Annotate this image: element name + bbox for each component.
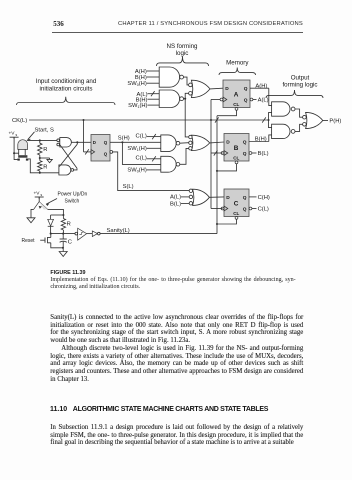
svg-text:R: R <box>43 165 47 171</box>
svg-text:B: B <box>234 145 239 152</box>
wire Qbar of A stub <box>253 99 257 101</box>
power +Vs sanity <box>34 191 43 198</box>
wire NS-C or output to D of flip-flop C <box>209 196 224 198</box>
label A(L) output <box>258 98 269 104</box>
svg-text:CL: CL <box>233 102 239 107</box>
junction lower rail to resistor <box>39 172 41 174</box>
wire B(H) stub <box>147 76 159 78</box>
running head <box>118 22 303 28</box>
wire B(H) stub 2 <box>148 98 160 100</box>
resistor R upper <box>38 143 42 155</box>
wire SW0(H) stub B2 <box>147 169 161 171</box>
label C(L) input B2 <box>136 156 147 162</box>
brace: Output forming logic <box>266 90 323 98</box>
power up/dn switch (SPDT) <box>34 202 48 210</box>
wire NS-B2 to or gate B <box>180 148 189 164</box>
junction reset bottom to capacitor ground stem <box>62 247 64 249</box>
svg-text:C: C <box>234 200 239 207</box>
svg-text:B(L): B(L) <box>258 151 269 157</box>
wire clock of B to bus <box>211 152 223 154</box>
label Reset <box>22 238 36 244</box>
label: Memory <box>226 60 249 67</box>
svg-text:logic: logic <box>176 50 189 57</box>
label Start S with arrow <box>28 128 54 142</box>
svg-text:+V: +V <box>9 131 16 137</box>
svg-text:Q: Q <box>244 86 248 92</box>
ground power switch <box>27 218 35 223</box>
gate debounce latch bottom NAND <box>59 165 74 175</box>
svg-text:C(L): C(L) <box>136 156 147 162</box>
wire S(H) branch to second NS gate <box>122 142 160 164</box>
wire NS-A2 branch down to or gate B <box>185 99 189 137</box>
header rule <box>52 31 303 34</box>
label CK(L) <box>12 118 27 124</box>
flip-flop C (memory) <box>221 189 252 219</box>
fan-in slash on C(L) B1 <box>152 134 156 139</box>
resistor R sanity <box>61 219 65 231</box>
nand gate output O2 <box>272 124 295 138</box>
wire right throw to RC node <box>48 209 64 215</box>
label: Input conditioning and initialization circuits <box>36 78 97 92</box>
brace: NS forming logic <box>157 57 209 67</box>
label A(L) input <box>137 92 148 98</box>
wire A(H) down to output nand 1 <box>269 88 272 105</box>
bubble synchronizer Q-bar <box>110 151 113 154</box>
wire CK to O2 input <box>269 120 272 128</box>
wire C(L) stub B2 <box>147 158 161 160</box>
svg-text:C(L): C(L) <box>258 207 269 213</box>
fan-in slash on CK wire at output logic <box>262 117 266 122</box>
wire NS-B or output to D of flip-flop B <box>210 141 224 144</box>
buffer driver <box>92 231 100 237</box>
svg-text:S(L): S(L) <box>123 184 134 190</box>
svg-text:Q: Q <box>243 195 247 201</box>
wire +Vs to power switch <box>38 197 40 202</box>
wire A(L) stub C <box>181 196 191 198</box>
body paragraph 2 <box>50 345 303 353</box>
wire sanity RC node rail <box>50 233 75 235</box>
svg-text:Q: Q <box>244 97 248 103</box>
wire NS-A2 to or gate <box>184 93 189 99</box>
svg-text:D: D <box>225 86 229 92</box>
label S(H) <box>118 135 130 141</box>
reset pushbutton <box>40 234 63 248</box>
wire resistor R upper leads <box>39 140 41 158</box>
nand gate NS-A2 <box>159 90 183 108</box>
svg-text:C(H): C(H) <box>258 195 270 201</box>
figure caption heading <box>50 271 85 276</box>
fan-in slash at clock of B <box>214 150 218 155</box>
label SW0(H) input B2 <box>127 168 146 174</box>
nand gate NS-B1 <box>161 135 180 152</box>
schmitt trigger inverter <box>75 228 87 240</box>
svg-text:initialization circuits: initialization circuits <box>40 85 93 92</box>
svg-text:Input conditioning and: Input conditioning and <box>36 78 97 85</box>
fan-in slash at synchronizer clock <box>85 149 89 154</box>
svg-text:C(L): C(L) <box>136 133 147 139</box>
svg-text:Memory: Memory <box>226 60 249 67</box>
svg-text:s: s <box>16 133 18 137</box>
wire CK(L) horizontal run <box>29 119 269 121</box>
figure caption text line 1 <box>50 277 295 284</box>
label R sanity <box>67 222 71 228</box>
svg-text:Start, S: Start, S <box>35 128 54 134</box>
wire S(L) from Q-bar to next-state gate C <box>113 152 191 191</box>
label C <box>68 240 72 246</box>
svg-text:R: R <box>43 147 47 153</box>
wire left throw to ground <box>31 209 34 217</box>
brace: input conditioning <box>17 97 116 105</box>
wire CK to O1 input <box>269 113 272 120</box>
body paragraph 3 <box>50 424 303 432</box>
ground below C <box>59 252 67 257</box>
svg-text:CK(L): CK(L) <box>12 118 27 124</box>
wire to diode anode <box>51 215 64 219</box>
wire switch right contact to lower rail <box>27 159 59 173</box>
label A(H) input <box>135 69 147 75</box>
wire NS-B1 to or gate B <box>180 142 189 145</box>
svg-text:SW1(H): SW1(H) <box>127 146 146 152</box>
label: Output forming logic <box>282 75 317 89</box>
wire clock of A to bus <box>211 99 220 101</box>
label A(H) output <box>255 83 267 89</box>
svg-text:B(H): B(H) <box>135 75 147 81</box>
fan-in slash on C(L) B2 <box>152 156 156 161</box>
wire Qbar of C stub <box>252 208 257 210</box>
synchronizer D flip-flop <box>91 135 110 162</box>
resistor R lower <box>38 161 42 171</box>
label P(H) <box>329 119 341 125</box>
junction upper rail to resistor <box>39 139 41 141</box>
junction CL-C on sanity bus <box>216 223 218 225</box>
svg-text:C: C <box>68 240 72 246</box>
or gate NS-C output (bubbled inputs) <box>189 189 209 205</box>
label: NS forming logic <box>167 43 199 57</box>
power bar +Vs sanity <box>35 197 44 199</box>
wire resistor midpoint to ground <box>40 158 50 159</box>
wire clock of C to bus <box>211 208 223 210</box>
diode across R <box>48 219 54 233</box>
svg-text:CL: CL <box>233 156 239 161</box>
flip-flop B (memory) <box>221 134 252 164</box>
junction CK to synchronizer clock <box>82 119 84 121</box>
junction CK to output gates <box>267 119 269 121</box>
label Sanity(L) <box>107 228 130 234</box>
label R lower <box>43 165 47 171</box>
section heading 11.10 <box>50 406 67 413</box>
svg-text:A(H): A(H) <box>255 83 267 89</box>
wire Q of C stub <box>249 196 257 198</box>
svg-text:Q: Q <box>243 151 247 157</box>
svg-text:B(H): B(H) <box>255 137 267 143</box>
wire schmitt to buffer <box>87 233 93 235</box>
ground debounce <box>47 159 52 162</box>
svg-text:S(H): S(H) <box>118 135 130 141</box>
wire resistor R lower leads <box>39 157 41 173</box>
label B(H) output <box>255 137 267 143</box>
svg-text:Reset: Reset <box>22 238 36 244</box>
wire C(L) stub B1 <box>147 136 161 138</box>
svg-text:Switch: Switch <box>65 198 80 204</box>
svg-text:A: A <box>234 91 239 98</box>
body paragraph 1 <box>50 314 303 322</box>
flip-flop A (memory) <box>220 80 253 110</box>
wire B(H) up to output nand 2 <box>269 135 272 142</box>
wire SW1(H) stub B1 <box>147 147 161 149</box>
svg-text:SW0(H): SW0(H) <box>127 168 146 174</box>
svg-text:D: D <box>226 140 230 146</box>
nand gate output O1 <box>272 102 295 116</box>
brace: Memory <box>219 68 256 76</box>
wire O2 to output or gate <box>295 124 303 131</box>
page number <box>53 21 64 28</box>
wire S(H) from synchronizer Q to NS gate <box>110 141 161 143</box>
label B(H) input <box>135 75 147 81</box>
svg-text:D: D <box>93 140 96 145</box>
nand gate NS-B2 <box>161 156 180 172</box>
wire clock distribution bus <box>210 100 212 209</box>
svg-text:Sanity(L): Sanity(L) <box>107 228 130 234</box>
svg-text:+V: +V <box>34 191 41 197</box>
capacitor C <box>60 234 67 252</box>
pushbutton switch Start S <box>17 140 28 161</box>
svg-text:Q: Q <box>104 140 108 145</box>
svg-text:Q: Q <box>104 151 108 156</box>
label R upper <box>43 147 47 153</box>
svg-text:s: s <box>41 193 43 197</box>
wire Sanity(L) rail <box>100 233 217 235</box>
svg-text:CL: CL <box>233 211 239 216</box>
svg-text:Output: Output <box>291 75 310 82</box>
label SW1(H) input <box>128 103 147 109</box>
svg-text:A(L): A(L) <box>170 195 181 201</box>
wire O1 to output or gate <box>295 109 303 117</box>
wire Qbar of B stub <box>252 152 257 154</box>
label C(L) input B1 <box>136 133 147 139</box>
wire CK to synchronizer clock <box>84 120 92 152</box>
label SW0(H) input <box>127 81 146 87</box>
svg-text:SW1(H): SW1(H) <box>128 103 147 109</box>
wire +Vs to switch pole <box>14 137 19 153</box>
wire switch pole to upper rail <box>27 139 59 141</box>
wire R to sanity node <box>62 230 64 234</box>
label B(L) output <box>258 151 269 157</box>
svg-text:A(L): A(L) <box>258 98 269 104</box>
wire Q of B to B(H) <box>249 141 269 143</box>
wire A(H) stub <box>147 70 159 72</box>
fan-in slash on A(L) <box>151 91 155 96</box>
label Power Up/Dn Switch with arrow <box>46 192 87 206</box>
wire SW0(H) stub <box>147 82 159 84</box>
or gate NS-B output (bubbled inputs) <box>189 135 210 150</box>
wire Q of A to A(H) <box>250 87 269 89</box>
wire CL of C to sanity bus <box>217 219 237 224</box>
svg-text:R: R <box>67 222 71 228</box>
nand gate NS-A1 <box>159 67 183 87</box>
wire A(L) stub <box>148 93 160 95</box>
label C(H) output <box>258 195 270 201</box>
wire to resistor R sanity <box>62 215 64 219</box>
svg-text:D: D <box>226 195 230 201</box>
junction CK to memory clock bus <box>210 119 212 121</box>
junction diode branch <box>62 214 64 216</box>
wire CL of B to sanity bus <box>217 163 237 171</box>
figure caption text line 2 <box>50 284 140 291</box>
svg-text:Q: Q <box>243 206 247 212</box>
wire +Vs to switch left contact <box>13 152 17 159</box>
svg-text:B(L): B(L) <box>170 201 181 207</box>
svg-text:SW0(H): SW0(H) <box>127 81 146 87</box>
fan-in slash on CK wire at clock bus <box>215 117 219 122</box>
svg-text:Q: Q <box>243 140 247 146</box>
wire NS-A1 to or gate <box>184 77 189 85</box>
or gate output P (bubbled inputs) <box>303 112 323 128</box>
wire CL of A to sanity bus <box>217 110 237 116</box>
svg-text:forming logic: forming logic <box>282 82 317 89</box>
wire cross-couple bottom to top input <box>60 145 77 170</box>
or gate NS-A output (bubbled inputs) <box>189 80 210 97</box>
wire latch top output to synchronizer D <box>71 141 91 143</box>
power +Vs debounce <box>9 131 18 138</box>
label B(H) input 2 <box>136 97 148 103</box>
wire NS-A or output to D of flip-flop A <box>210 87 223 90</box>
wire P(H) output <box>323 120 328 122</box>
label S(L) <box>123 184 134 190</box>
power bar +Vs debounce <box>10 137 19 139</box>
wire B(L) stub C <box>181 203 191 205</box>
junction CL-B on sanity bus <box>216 170 218 172</box>
label B(L) input C <box>170 201 181 207</box>
svg-text:Power Up/Dn: Power Up/Dn <box>58 192 88 198</box>
gate debounce latch top (AND with bubbled inputs) <box>57 138 72 147</box>
wire sanity clear bus vertical <box>216 116 218 234</box>
svg-text:P(H): P(H) <box>329 119 341 125</box>
wire SW1(H) stub <box>148 104 160 106</box>
label SW1(H) input B1 <box>127 146 146 152</box>
wire cross-couple top to bottom input <box>59 142 77 166</box>
label A(L) input C <box>170 195 181 201</box>
label C(L) output <box>258 207 269 213</box>
